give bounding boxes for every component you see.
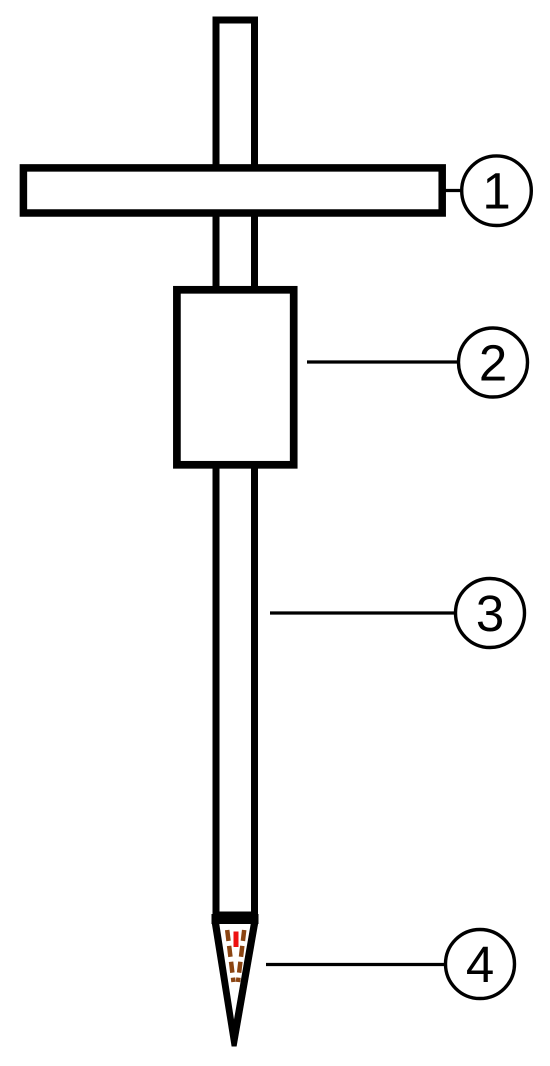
- callout circle 3: [456, 579, 525, 648]
- leader line 2: [307, 360, 459, 363]
- body box 2: [177, 290, 294, 465]
- cone tip inner white: [219, 924, 250, 1020]
- svg-text:4: 4: [466, 936, 494, 993]
- crossbar handle 1: [23, 168, 442, 213]
- svg-text:1: 1: [482, 163, 510, 220]
- callout circle 2: [459, 328, 528, 397]
- shaft tube (vertical body): [216, 20, 255, 915]
- callout circle 1: [462, 156, 532, 226]
- tip red mark 4: [234, 932, 239, 948]
- tip hatching brown right: [238, 930, 244, 982]
- cone tip outer: [212, 922, 259, 1047]
- tip cap: [212, 914, 259, 924]
- callout circle 4: [446, 930, 515, 999]
- leader line 3: [270, 611, 456, 614]
- leader line 4: [266, 963, 447, 966]
- tip hatching brown left: [227, 930, 233, 982]
- svg-text:2: 2: [479, 334, 507, 391]
- svg-text:3: 3: [476, 585, 504, 642]
- leader line 1: [444, 189, 462, 192]
